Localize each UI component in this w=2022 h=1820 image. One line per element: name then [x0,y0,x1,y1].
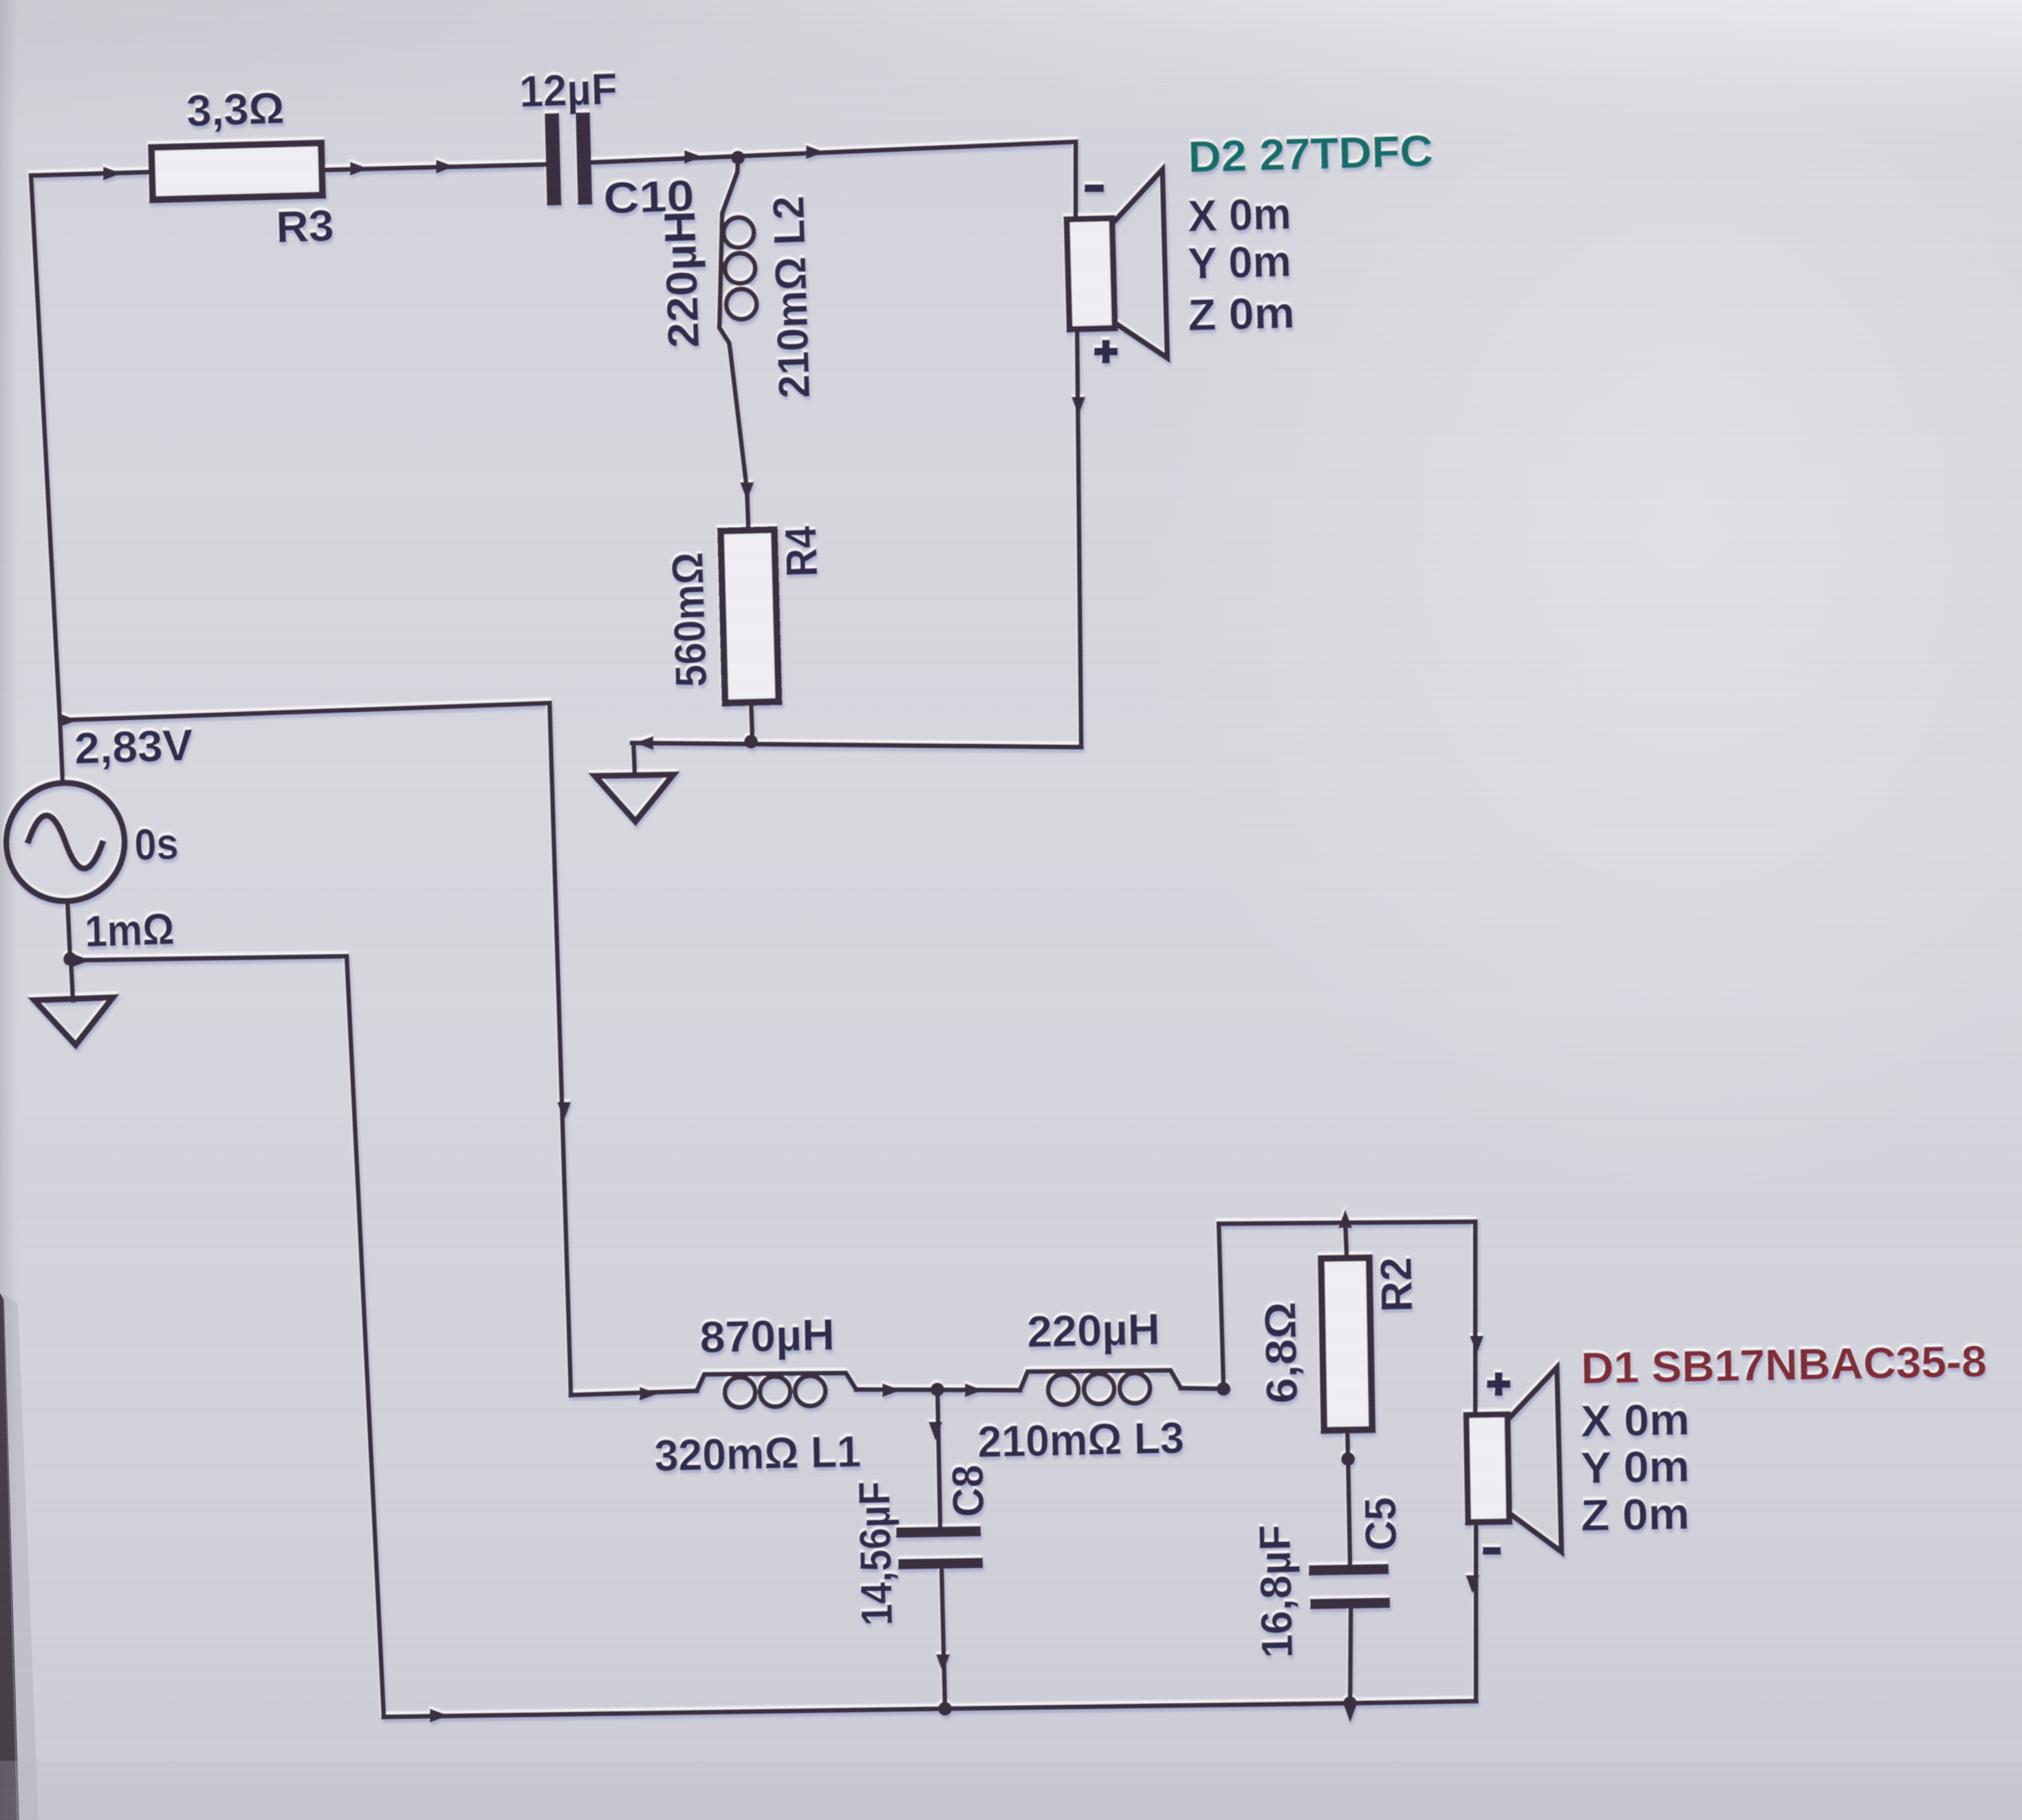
svg-text:210mΩ L2: 210mΩ L2 [763,195,819,399]
svg-text:D2 27TDFC: D2 27TDFC [1187,126,1433,182]
ground [34,997,113,1045]
wire [928,1422,942,1440]
capacitor C10 [552,112,585,205]
wire left vertical source plus [31,175,60,720]
node C5 bottom [1343,1696,1357,1710]
wire node to C8 [937,1389,940,1528]
inductor L1 [697,1373,856,1391]
wire [1343,1704,1357,1722]
node L3 / R2 net [1217,1382,1230,1396]
wire [350,162,369,175]
wire C10 to speaker D2 minus [591,142,1076,219]
wire [684,150,703,164]
inductor L3 [1020,1370,1181,1390]
wire [436,160,455,173]
plus label D2 [1094,340,1118,363]
wire source top to R3 [31,172,151,175]
wire R3 to C10 [322,164,545,170]
svg-text:210mΩ L3: 210mΩ L3 [977,1413,1184,1466]
node R4 / tweeter rail [744,735,758,748]
minus label D2 [1085,184,1104,192]
svg-text:220µH: 220µH [655,210,708,349]
resistor R3 [151,143,323,199]
resistor R2 [1321,1257,1372,1430]
svg-text:320mΩ L1: 320mΩ L1 [654,1427,861,1480]
wire R4 to tweeter bottom rail [751,702,752,740]
wire [1470,1336,1483,1354]
wire R2 to C5 [1347,1430,1348,1459]
wire [1338,1209,1352,1228]
voltage source V1 [6,783,124,901]
wire source node to L1 feed [60,703,571,1395]
wire [557,1102,571,1120]
node R2 / C5 [1341,1452,1355,1466]
wire to ground 1 [71,960,73,1000]
svg-text:R2: R2 [1371,1257,1422,1312]
wire [430,1709,448,1722]
wire [882,1383,901,1397]
svg-text:3,3Ω: 3,3Ω [186,83,285,136]
speaker D2 (tweeter) [1065,169,1167,360]
wire [640,1387,658,1400]
svg-text:14,56µF: 14,56µF [849,1481,902,1626]
wire node to C5 [1348,1459,1350,1568]
wire [635,736,653,750]
speaker D1 (woofer) [1466,1367,1562,1553]
ground [633,743,635,776]
wire C5 to bottom rail [1350,1608,1351,1703]
wire junction to source top [60,720,63,782]
svg-text:R3: R3 [275,200,334,252]
svg-text:Z 0m: Z 0m [1187,288,1295,340]
wire [59,713,78,727]
svg-text:Y 0m: Y 0m [1187,236,1292,288]
wire rail to D1 plus [1473,1222,1478,1413]
svg-text:C5: C5 [1355,1497,1406,1551]
wire source minus to bottom rail [70,956,384,1717]
svg-text:Y 0m: Y 0m [1580,1441,1690,1493]
wire [72,953,91,967]
svg-text:6,8Ω: 6,8Ω [1255,1301,1307,1404]
wire tweeter bottom rail [632,743,1081,747]
wire L1 to L3 [856,1389,1020,1390]
capacitor C8 [896,1531,981,1532]
svg-text:R4: R4 [776,525,827,578]
svg-text:1mΩ: 1mΩ [84,904,175,956]
plus label D1 [1487,1372,1510,1396]
svg-text:X 0m: X 0m [1580,1394,1690,1446]
svg-text:16,8µF: 16,8µF [1250,1524,1302,1658]
svg-text:220µH: 220µH [1027,1304,1160,1356]
wire [740,482,754,501]
wire [936,1654,950,1673]
wire L2 to R4 [730,352,748,528]
wire [1466,1575,1479,1594]
wire L3 to R2 net [1181,1388,1224,1389]
wire R2 top rail [1219,1222,1475,1389]
svg-text:C8: C8 [942,1464,993,1517]
wire to L1 [571,1391,697,1395]
wire [103,166,122,180]
svg-text:870µH: 870µH [699,1310,835,1362]
wire D2 plus to rail [1077,329,1081,747]
capacitor C5 [1309,1569,1389,1570]
inductor L2 [719,158,738,352]
wire [1072,397,1085,415]
svg-text:560mΩ: 560mΩ [662,552,716,688]
svg-text:0s: 0s [133,819,179,869]
svg-text:X 0m: X 0m [1187,188,1292,241]
svg-text:Z 0m: Z 0m [1580,1488,1690,1540]
wire D1 minus to bottom rail [1474,1521,1479,1701]
node J2 top-wire / L2 tap [731,151,745,164]
wire bottom rail [384,1701,1476,1717]
wire rail to R2 [1345,1222,1347,1257]
node source minus [63,952,77,966]
svg-text:12µF: 12µF [519,64,618,116]
svg-text:D1 SB17NBAC35-8: D1 SB17NBAC35-8 [1580,1336,1987,1393]
wire [965,1383,983,1397]
resistor R4 [721,530,779,703]
wire C8 to bottom rail [942,1568,945,1709]
wire source bottom [67,901,70,959]
svg-text:2,83V: 2,83V [74,720,193,773]
node C8 bottom [938,1702,952,1715]
node C8 tap [931,1383,944,1396]
wire [806,145,825,159]
minus label D1 [1483,1547,1501,1554]
